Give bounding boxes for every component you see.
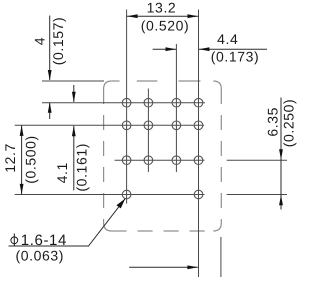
bottom partial dimension line — [129, 265, 198, 269]
svg-text:1.6-14: 1.6-14 — [21, 232, 67, 249]
svg-text:13.2: 13.2 — [147, 0, 177, 15]
hole r2c2 — [144, 121, 153, 130]
hole r2c1 — [122, 121, 131, 130]
hole r2c4 — [194, 121, 203, 130]
hole r1c4 — [194, 98, 203, 107]
hole r3c1 — [122, 156, 131, 165]
svg-text:(0.500): (0.500) — [23, 135, 39, 184]
svg-text:(0.161): (0.161) — [74, 143, 90, 192]
dimension 4.4 (0.173) — [153, 31, 267, 64]
hole r2c3 — [172, 121, 181, 130]
col 4 centerline / extension — [198, 10, 200, 278]
row 3 right extension — [227, 159, 287, 161]
body-top extension line (left) — [42, 80, 104, 82]
hole r3c3 — [172, 156, 181, 165]
svg-text:12.7: 12.7 — [2, 143, 18, 173]
dimension 4.1 (0.161) left — [54, 85, 90, 192]
svg-text:4: 4 — [32, 37, 48, 45]
dimension 13.2 (0.520) top — [127, 0, 199, 34]
hole r3c4 — [194, 156, 203, 165]
svg-text:(0.520): (0.520) — [141, 18, 190, 34]
row 4 centerline / extension — [15, 194, 205, 196]
phi symbol — [11, 234, 18, 247]
col 3 centerline / extension — [175, 44, 177, 172]
row 1 centerline / extension — [42, 102, 205, 104]
svg-text:(0.157): (0.157) — [50, 17, 66, 66]
relay body outline (dashed rounded rectangle) — [104, 81, 222, 231]
dimension 4 (0.157) left top — [32, 16, 66, 120]
row 2 centerline / extension — [15, 124, 204, 126]
hole r4c4 — [194, 190, 203, 199]
dimension 6.35 (0.250) right — [265, 98, 297, 210]
svg-text:(0.173): (0.173) — [211, 49, 260, 65]
holes (14 x diameter 1.6) — [122, 98, 203, 198]
row 4 right extension — [227, 194, 287, 196]
svg-text:6.35: 6.35 — [265, 107, 281, 137]
hole callout text: phi 1.6-14 (0.063) — [11, 232, 67, 264]
col 2 centerline — [147, 89, 149, 173]
hole r1c2 — [144, 98, 153, 107]
col 1 centerline / extension — [126, 10, 128, 204]
svg-text:(0.063): (0.063) — [16, 248, 65, 264]
hole r1c3 — [172, 98, 181, 107]
dimension 12.7 (0.500) left — [2, 125, 39, 194]
right edge extension (bottom) — [220, 237, 222, 277]
leader for hole callout — [9, 199, 126, 246]
centerlines and extension lines — [15, 10, 287, 278]
hole r4c1 — [122, 190, 131, 199]
svg-text:(0.250): (0.250) — [281, 99, 297, 148]
hole r1c1 — [122, 98, 131, 107]
svg-text:4.4: 4.4 — [217, 31, 238, 47]
hole r3c2 — [144, 156, 153, 165]
row 3 centerline — [115, 159, 205, 161]
svg-text:4.1: 4.1 — [54, 162, 70, 183]
